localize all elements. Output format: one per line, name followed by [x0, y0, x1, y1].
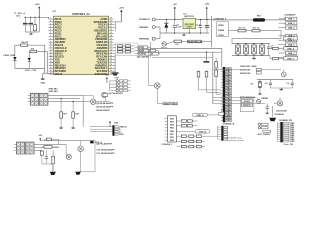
svg-text:GND: GND [187, 26, 192, 28]
resistor pair row2a [181, 125, 186, 127]
svg-text:POWER IN: POWER IN [139, 19, 150, 21]
transistor Q4 [66, 154, 71, 159]
svg-text:USB_2: USB_2 [288, 23, 296, 25]
wire MCU left pin stub 8 [49, 38, 54, 40]
wire LED bottom rail [15, 68, 45, 70]
transistor Q2 symbol [91, 99, 96, 104]
svg-text:5: 5 [50, 29, 51, 31]
label box net2 [171, 102, 178, 105]
ground R20 [60, 118, 62, 126]
svg-text:4.7uF: 4.7uF [176, 26, 182, 29]
connector J1 pin USB_6 [279, 44, 286, 46]
connector CONN2B black bar [280, 122, 283, 142]
component small box [103, 94, 107, 97]
svg-text:38: 38 [110, 23, 112, 25]
svg-text:VDD4: VDD4 [218, 34, 224, 37]
resistor R25 [44, 146, 52, 149]
wire pgc cluster feeds [114, 44, 117, 46]
connector CN7 pin 1 [116, 80, 118, 82]
svg-text:23: 23 [110, 67, 112, 69]
svg-text:+3V3: +3V3 [35, 4, 41, 6]
connector CN9 pin1 [258, 123, 260, 125]
connector J1 pin USB_7 [279, 52, 286, 54]
svg-text:27: 27 [110, 55, 112, 57]
connector J1 pin USB_2 [279, 22, 286, 24]
terminal block TB2 [39, 93, 48, 105]
transistor Q5 osc buffer [281, 72, 286, 77]
connector CONN2A pin 11 [225, 95, 231, 97]
svg-text:9MHZ/OSC: 9MHZ/OSC [240, 73, 251, 75]
wire pgc long [135, 50, 139, 52]
wire cn7 left bus [109, 81, 111, 91]
svg-text:RESET/MCLR: RESET/MCLR [188, 41, 202, 43]
svg-text:28: 28 [110, 52, 112, 54]
svg-text:31: 31 [110, 44, 112, 46]
wire R4 right to bus [27, 44, 44, 46]
connector CONN2A pin 7 [225, 84, 231, 86]
wire pullup feeds to conn2a [198, 77, 200, 90]
svg-text:VSS1: VSS1 [172, 103, 178, 105]
connector CN7 pin 2 [116, 83, 118, 85]
svg-text:25: 25 [110, 61, 112, 63]
svg-text:USB_3: USB_3 [288, 27, 296, 29]
wire MCU left pin stub 7 [49, 35, 54, 37]
svg-text:33: 33 [110, 38, 112, 40]
wire MCU right pin stub 9 [109, 41, 114, 43]
connector CONN2A pin 20 [225, 119, 231, 121]
svg-text:16: 16 [50, 61, 52, 63]
wire osc net [261, 69, 281, 71]
connector CONN2A pin 2 [225, 70, 231, 72]
ground caps [280, 88, 282, 89]
svg-text:SOSCI: SOSCI [244, 101, 251, 103]
resistor grid row 3 b [189, 145, 194, 147]
svg-text:PWR/GND: PWR/GND [139, 38, 150, 40]
wire MCU left pin stub 10 [49, 44, 54, 46]
svg-text:IRLML6402PF: IRLML6402PF [101, 149, 115, 152]
svg-text:VSS: VSS [226, 120, 231, 122]
svg-text:R11 1k: R11 1k [253, 27, 260, 29]
wire top feed bl2 [40, 140, 95, 142]
net label oval GND mid [195, 130, 210, 133]
connector J1 pin USB_3 [279, 27, 286, 29]
wire bl2 bottom rail [78, 171, 95, 173]
svg-text:GND: GND [226, 90, 231, 92]
svg-text:IRLML2502PF: IRLML2502PF [96, 110, 110, 112]
label box PGD [138, 46, 142, 49]
svg-text:GND_B: GND_B [199, 131, 207, 133]
connector CONN2A pin 3 [225, 73, 231, 75]
transistor Q5 big [78, 146, 84, 152]
svg-text:RESET: RESET [262, 98, 270, 100]
resistor R20 4K7 [60, 99, 62, 112]
svg-text:8: 8 [50, 38, 51, 40]
connector CONN2B pin 9 [283, 138, 289, 140]
wire tb outputs [48, 95, 83, 97]
wire tb2 outputs [34, 143, 66, 145]
ground bl2 right [75, 172, 81, 175]
label box MCLR/VPP net [187, 40, 201, 43]
wire MCU left pin stub 4 [49, 27, 54, 29]
transistor Q10 [277, 101, 282, 106]
wire MCU left pin stub 1 [49, 18, 54, 20]
connector CONN2A pin 12 [225, 98, 231, 100]
svg-text:29: 29 [110, 49, 112, 51]
connector CN8 pin 4 [115, 133, 118, 135]
connector CN8 pin 2 [115, 128, 118, 130]
wire MCU left pin stub 5 [49, 30, 54, 32]
resistor R10 [238, 29, 246, 32]
svg-text:PSLA26/PSF: PSLA26/PSF [100, 142, 113, 145]
resistor R17 pull-up [198, 70, 200, 72]
IC U1 regulator body [183, 18, 196, 28]
svg-text:CONN2A_B: CONN2A_B [223, 123, 235, 126]
svg-text:PWR4: PWR4 [218, 29, 225, 32]
resistor pair row1b [187, 120, 192, 122]
terminal block TB3 [16, 142, 25, 154]
connector CN10 pin 6 [224, 138, 228, 140]
terminal block TB1 [30, 93, 39, 105]
svg-text:+5V: +5V [105, 74, 109, 76]
wire R5 right to bus [37, 51, 48, 53]
wire MCU left pin stub 6 [49, 33, 54, 35]
switch SW1 reset button [162, 42, 166, 46]
svg-text:15: 15 [50, 58, 52, 60]
switch SW2 reset [257, 99, 261, 103]
resistor RN1 element 2a [118, 48, 123, 50]
connector CN8 pin 3 [115, 131, 118, 133]
connector CN10 pin 5 [224, 136, 228, 138]
svg-text:10: 10 [50, 44, 52, 46]
svg-text:IRLML6402PF: IRLML6402PF [100, 106, 114, 109]
svg-text:Q10 BC847: Q10 BC847 [276, 110, 288, 113]
net label oval GND top [193, 113, 208, 116]
svg-text:35: 35 [110, 32, 112, 34]
ground mid rail [205, 52, 207, 61]
wire MCU right pin stub 2 [109, 21, 114, 23]
svg-text:18: 18 [50, 67, 52, 69]
svg-text:PG: PG [139, 51, 142, 53]
svg-text:IRLML2502PF: IRLML2502PF [101, 153, 115, 155]
wire MCU right pin stub 8 [109, 38, 114, 40]
wire MCU right pin stub 15 [109, 59, 114, 61]
capacitor C5 1uF [200, 20, 202, 26]
svg-text:GND: GND [119, 134, 124, 136]
resistor R16 pull-up [215, 68, 217, 70]
wire MCU right pin stub 6 [109, 33, 114, 35]
capacitor C6 output polarized [206, 20, 208, 26]
wire usb data 1 [231, 38, 233, 43]
wire oval right [208, 114, 219, 116]
wire +3V3 vertical bus [211, 16, 213, 47]
diode array D7 ESD [253, 44, 255, 46]
connector CONN2A pin 14 [225, 103, 231, 105]
svg-text:AUX_PWR33: AUX_PWR33 [258, 133, 272, 136]
wire +VIN top rail [158, 19, 212, 21]
wire usb data 3 [269, 56, 271, 59]
wire MCU right pin stub 17 [109, 64, 114, 66]
resistor grid row 2 b [189, 140, 194, 142]
wire MCU left pin stub 17 [49, 64, 54, 66]
wire reset feeds [213, 97, 257, 99]
connector CONN2A pin 16 [225, 109, 231, 111]
wire MCU right pin stub 10 [109, 44, 114, 46]
resistor grid row 1 c [196, 135, 201, 137]
svg-text:39: 39 [110, 20, 112, 22]
wire avdd branch [114, 22, 116, 31]
svg-text:IRLML6402PF: IRLML6402PF [100, 102, 114, 105]
resistor R13 [273, 57, 279, 59]
wire pgd long [135, 46, 139, 48]
label box USB_D1 [284, 37, 298, 40]
LED D1 green [13, 57, 16, 60]
wire top rail left [25, 16, 49, 18]
capacitor C10 reset [266, 104, 268, 107]
wire R5 left down [28, 51, 31, 53]
wire MCU left pin stub 20 [49, 73, 54, 75]
connector CONN2B pin 8 [283, 136, 289, 138]
ground crystal [259, 93, 261, 94]
svg-text:6: 6 [50, 32, 51, 34]
resistor R12 [273, 47, 279, 49]
resistor R2 vertical [34, 17, 36, 24]
svg-text:37: 37 [110, 26, 112, 28]
svg-text:22: 22 [110, 70, 112, 72]
connector J1 pin USB_5 [279, 39, 286, 41]
svg-text:2: 2 [50, 20, 51, 22]
label box SOSC rows [240, 99, 254, 112]
label box ICSP [138, 53, 144, 56]
wire MCU right pin stub 7 [109, 35, 114, 37]
svg-text:10K: 10K [75, 114, 79, 116]
connector CONN2A pin 18 [225, 114, 231, 116]
wire MCU right pin stub 12 [109, 50, 114, 52]
svg-text:32: 32 [110, 41, 112, 43]
connector CONN2B pin 7 [283, 134, 289, 136]
label box USB_D2 [284, 47, 298, 50]
svg-text:7: 7 [50, 35, 51, 37]
connector CN8 pin 1 [115, 126, 118, 128]
connector CONN2A black bar [223, 67, 226, 122]
diode array D5 ESD [237, 44, 239, 46]
wire usb sense [228, 30, 238, 32]
svg-text:MCP1725: MCP1725 [184, 16, 194, 18]
wire MCU right pin stub 3 [109, 24, 114, 26]
svg-text:+5V: +5V [173, 4, 177, 6]
svg-text:USB_1: USB_1 [287, 38, 295, 40]
wire MCU left pin stub 19 [49, 70, 54, 72]
label box small top [219, 112, 224, 115]
svg-text:9: 9 [50, 41, 51, 43]
svg-text:24LC256/SM: 24LC256/SM [137, 55, 150, 58]
resistor R15 pull-up [215, 58, 217, 62]
connector J1 pin USB_1 [279, 18, 286, 20]
LED D2 [28, 58, 31, 61]
wire MCU left pin stub 13 [49, 53, 54, 55]
resistor RN1 element 1a [118, 45, 123, 47]
resistor grid row 1 b [189, 135, 194, 137]
svg-text:CONN3A_1: CONN3A_1 [161, 143, 173, 146]
connector CONN2A pin 15 [225, 106, 231, 108]
ground R21 [72, 118, 74, 126]
svg-text:17: 17 [50, 64, 52, 66]
connector CN10 pin 2 [224, 129, 228, 131]
svg-text:19: 19 [50, 70, 52, 72]
resistor RN1 element 1b [125, 45, 130, 47]
svg-text:LEDG_RUN: LEDG_RUN [4, 55, 16, 57]
ground below C1 C2 [30, 33, 32, 34]
component opto box [90, 141, 93, 144]
wire MCU right pin stub 5 [109, 30, 114, 32]
connector CONN2B pin 2 [283, 124, 289, 126]
wire MCU left pin stub 14 [49, 56, 54, 58]
connector CONN2A pin 4 [225, 76, 231, 78]
wire MCU left pin stub 2 [49, 21, 54, 23]
svg-text:USB_7: USB_7 [288, 53, 296, 55]
wire MCU right pin stub 18 [109, 67, 114, 69]
connector CONN2A pin 8 [225, 87, 231, 89]
wire reset net [166, 41, 174, 44]
wire tb1 input ticks [28, 95, 31, 97]
connector CONN3 box [168, 116, 177, 142]
connector CONN2B pin 10 [283, 140, 289, 142]
resistor pair row1a [181, 120, 186, 122]
wire MCU right pin stub 13 [109, 53, 114, 55]
wire rail to MCU pins [48, 17, 50, 19]
resistor RN1 element 3b [125, 51, 130, 53]
svg-text:+3V3: +3V3 [119, 7, 125, 9]
svg-text:GND: GND [40, 82, 45, 84]
resistor grid row 3 a [181, 145, 186, 147]
wire MCU left pin stub 12 [49, 50, 54, 52]
wire bottom rail left [25, 31, 39, 33]
wire q mid feed [148, 48, 150, 85]
resistor network RN1 box [115, 43, 137, 56]
resistor grid row 2 a [181, 140, 186, 142]
wire MCU right pin stub 11 [109, 47, 114, 49]
svg-text:C5 1u: C5 1u [195, 24, 201, 26]
connector CN10 pin 4 [224, 133, 228, 135]
wire bl2 gnd rail [42, 163, 53, 165]
svg-text:D10/4148: D10/4148 [275, 113, 285, 116]
wire MCU left pin stub 18 [49, 67, 54, 69]
ground regulator [188, 29, 190, 33]
resistor R26 vertical [40, 151, 43, 155]
svg-text:+3V3: +3V3 [204, 4, 210, 6]
wire MCU left pin stub 11 [49, 47, 54, 49]
wire MCU left pin stub 3 [49, 24, 54, 26]
connector CONN2A pin 6 [225, 81, 231, 83]
wire MCU right pin stub 16 [109, 62, 114, 64]
resistor pair row2b [187, 125, 192, 127]
wire MCU left pin stub 15 [49, 59, 54, 61]
wire regulator ground rail [160, 32, 209, 34]
svg-text:OSC1_CON: OSC1_CON [25, 70, 37, 72]
capacitor C2 (polarized) [30, 17, 32, 23]
wire MCU right pin stub 14 [109, 56, 114, 58]
connector CONN2B pin 1 [283, 122, 289, 124]
wire MCLR feed down [38, 17, 40, 32]
wire top rail to USB [212, 19, 254, 21]
wire MCU left pin stub 16 [49, 62, 54, 64]
diode D3 input protection [165, 20, 167, 24]
connector CONN2B pin 4 [283, 128, 289, 130]
resistor grid row 2 c [196, 140, 201, 142]
ground main right [272, 106, 274, 117]
svg-text:3: 3 [50, 23, 51, 25]
connector CN8 black bar [112, 125, 114, 136]
ground bl2 [52, 164, 54, 172]
connector CONN2B pin 5 [283, 130, 289, 132]
connector CONN2A pin 17 [225, 111, 231, 113]
power arrow +3V3 [38, 8, 40, 18]
svg-text:VDD: VDD [226, 117, 231, 119]
svg-text:USB_3: USB_3 [287, 58, 295, 60]
connector CN7 pin 3 [116, 86, 118, 88]
label box VDD nets [217, 22, 229, 37]
svg-text:30: 30 [110, 47, 112, 49]
svg-text:R4 470: R4 470 [21, 41, 29, 44]
connector CONN2A pin 13 [225, 100, 231, 102]
connector CN10 pin 1 [224, 126, 228, 128]
svg-text:26: 26 [110, 58, 112, 60]
wire cn10 bus [217, 126, 219, 138]
wire MCU right pin stub 4 [109, 27, 114, 29]
diode array D6 ESD [245, 44, 247, 46]
svg-text:1: 1 [50, 18, 51, 20]
wire MCU right pin stub 20 [109, 73, 114, 75]
wire bottom rail to MCU [43, 72, 54, 74]
label box USB_D3 [284, 57, 298, 60]
svg-text:9MHZ/OSC: 9MHZ/OSC [240, 70, 251, 72]
wire esd bottom rail [232, 55, 270, 57]
svg-text:VDD8: VDD8 [218, 25, 224, 27]
svg-text:100n: 100n [16, 15, 21, 17]
resistor R18 pull-up [206, 70, 208, 72]
wire R4 left to LED [15, 44, 21, 46]
wire usb data 2 [270, 48, 273, 50]
svg-text:PWR/SEL: PWR/SEL [139, 27, 149, 29]
svg-text:USB_2: USB_2 [287, 48, 295, 50]
wire tb3 input ticks [14, 143, 16, 145]
power +5V arrow CN8 [109, 122, 111, 127]
ground reset cap [266, 112, 268, 113]
connector CONN2B pin 6 [283, 132, 289, 134]
capacitor C12 [45, 150, 47, 156]
svg-text:USB_1: USB_1 [288, 19, 296, 21]
svg-text:PG: PG [139, 47, 142, 49]
IC U2 DSPIC33FJ main MCU body [54, 16, 109, 74]
wire caps ground rail [270, 87, 292, 89]
svg-text:GND PA2: GND PA2 [49, 90, 59, 93]
ground esd rail [253, 56, 255, 58]
svg-text:SOSCO: SOSCO [243, 105, 251, 107]
connector CONN2A pin 5 [225, 79, 231, 81]
connector J1 pin USB_4 [279, 35, 286, 37]
svg-text:GND1: GND1 [164, 103, 171, 105]
connector CONN2A pin 10 [225, 92, 231, 94]
wire MCU right pin stub 1 [109, 18, 114, 20]
ground left bottom [42, 73, 44, 77]
resistor R21 10K [72, 102, 74, 112]
svg-text:Conn_PB: Conn_PB [283, 144, 293, 146]
svg-text:XTAL/OSC_24O2: XTAL/OSC_24O2 [240, 65, 257, 68]
svg-text:13: 13 [50, 52, 52, 54]
wire vertical bus B [46, 52, 48, 74]
svg-text:GND_A: GND_A [196, 114, 204, 117]
svg-text:+5V: +5V [38, 135, 42, 137]
label box PGC [138, 49, 142, 52]
